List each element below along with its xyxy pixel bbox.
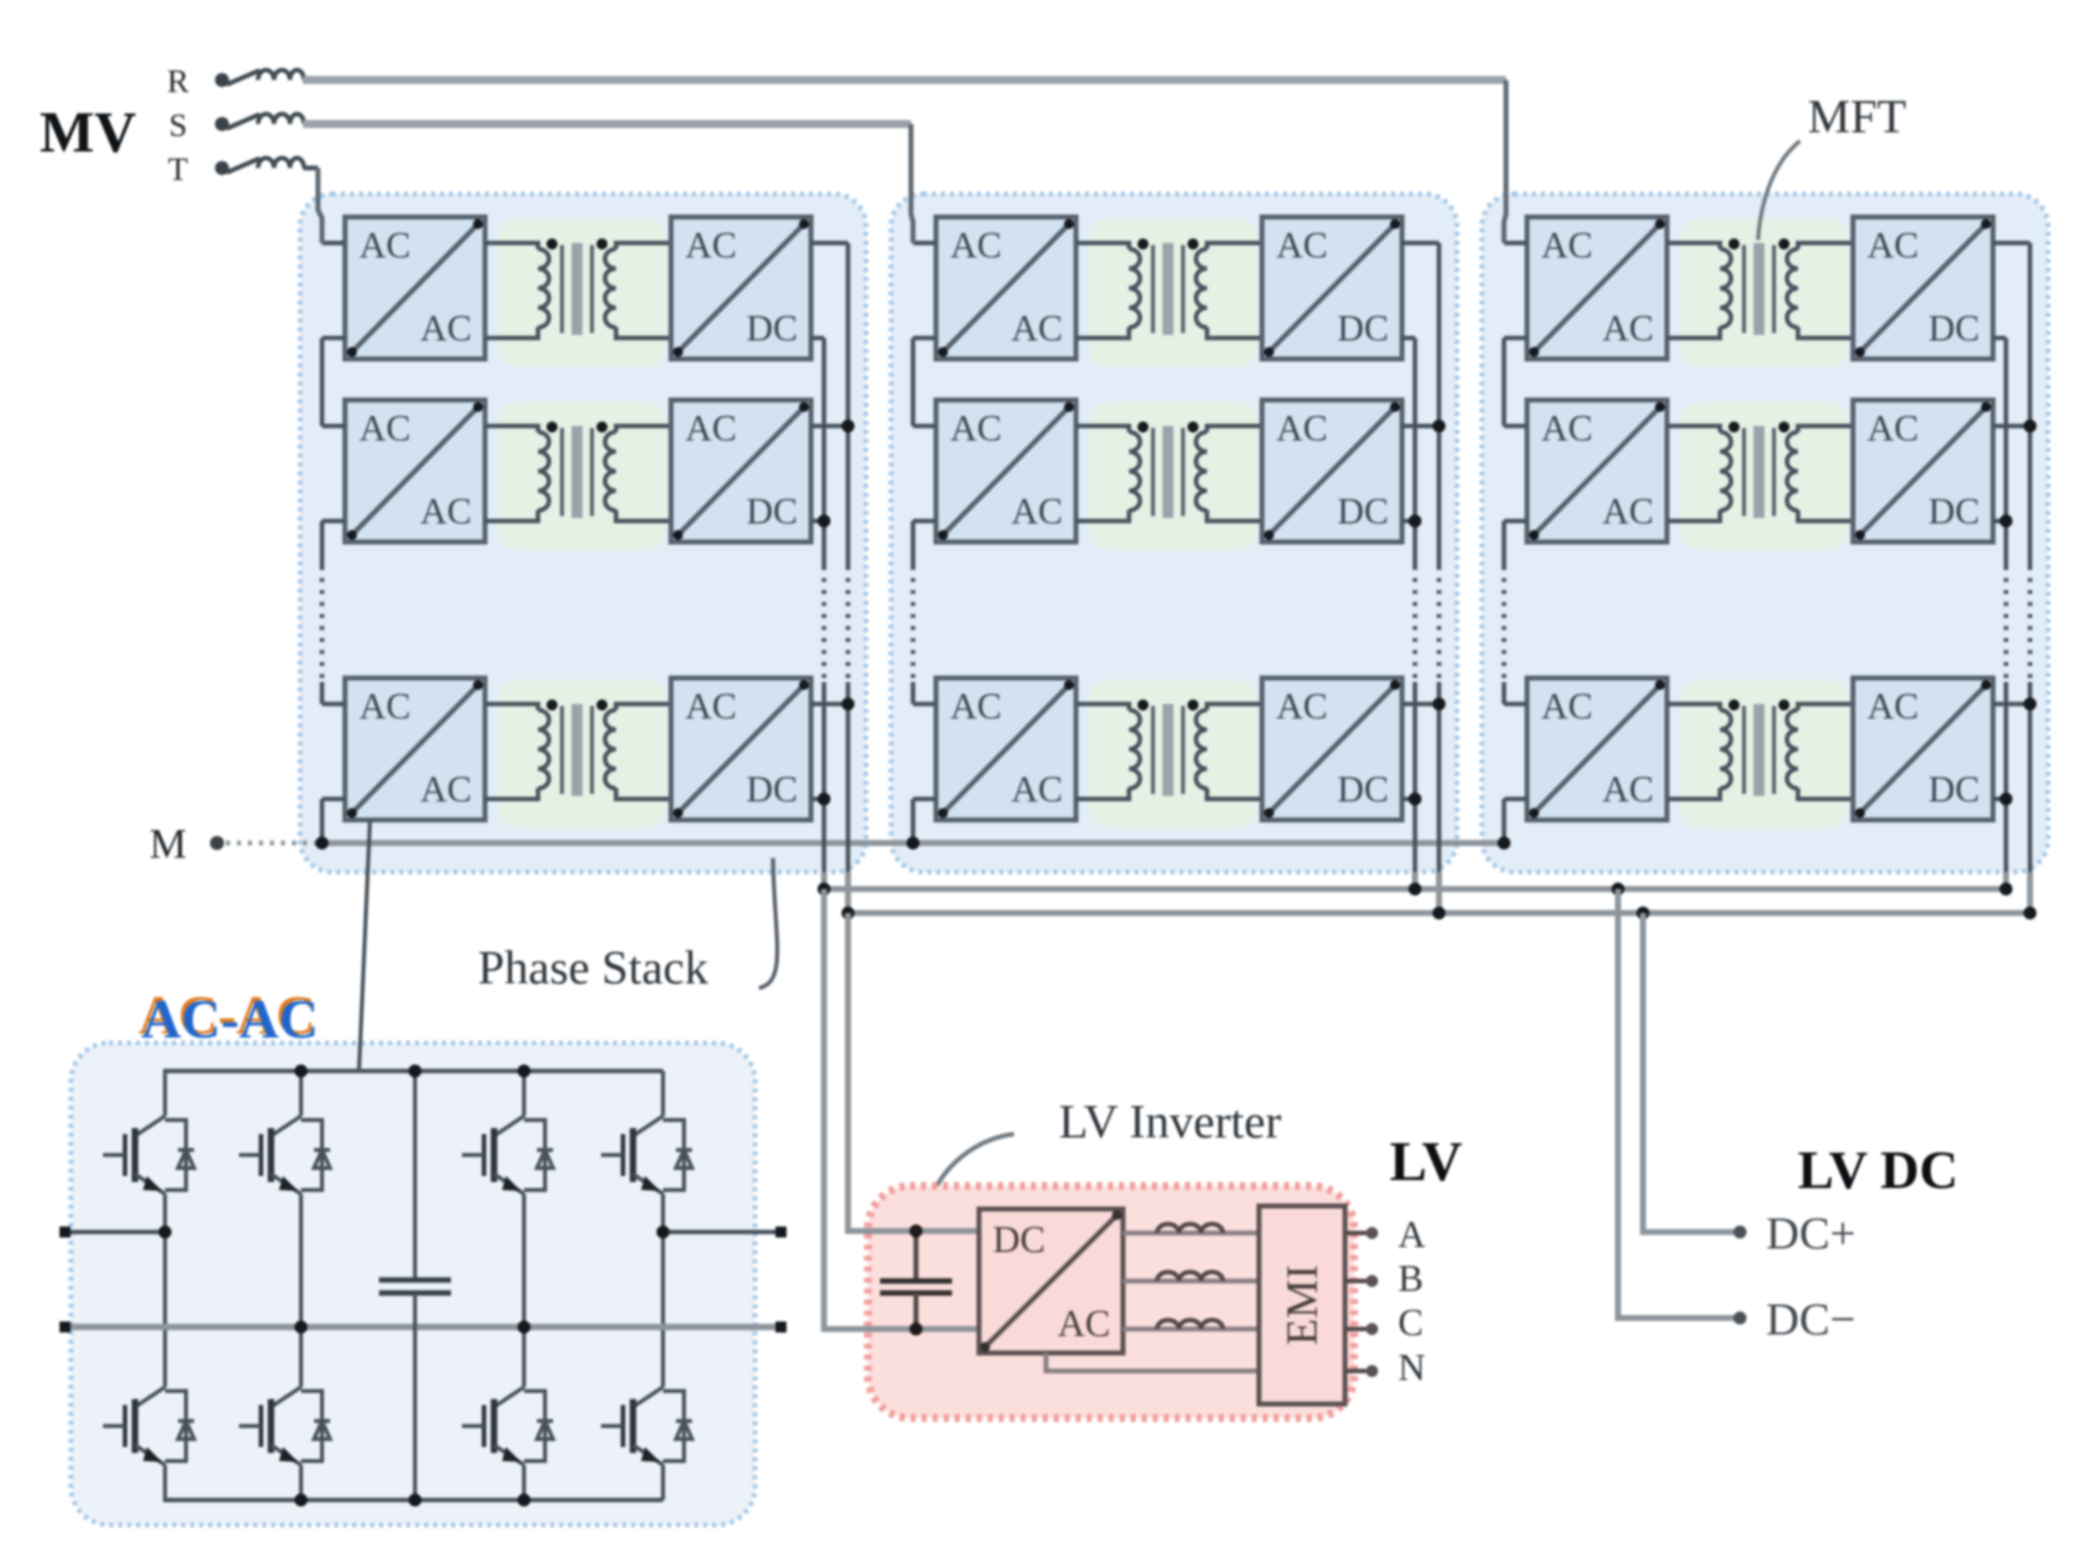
wire output stub bottom stack3 row1 bbox=[1993, 336, 2006, 341]
svg-text:AC-AC: AC-AC bbox=[141, 989, 318, 1050]
inductor LV phase B bbox=[1157, 1272, 1223, 1281]
wire chain stack2 dotted bbox=[911, 566, 916, 682]
node DC rail stack3 upper bbox=[2000, 883, 2013, 896]
svg-text:AC: AC bbox=[420, 309, 471, 350]
breaker switch phase T bbox=[228, 159, 258, 172]
wire AC-AC top rail bbox=[163, 1069, 663, 1074]
wire phase S horizontal bbox=[303, 120, 911, 128]
wire DC bus inner stack3 upper bbox=[2004, 338, 2009, 566]
wire bus outer stack3 drop bbox=[2027, 872, 2033, 914]
wire DC bus inner stack2 lower bbox=[1413, 682, 1418, 872]
wire input stub top stack1 row2 bbox=[322, 424, 345, 429]
node DC rail stack2 lower bbox=[1433, 907, 1446, 920]
wire output stub bottom stack2 row1 bbox=[1402, 336, 1415, 341]
svg-text:AC: AC bbox=[1867, 409, 1918, 450]
node AC-AC bottom rail cap bbox=[409, 1494, 422, 1507]
wire chain stack2 r2-dots bbox=[911, 521, 916, 566]
converter AC/AC stack1 row3 bbox=[345, 678, 485, 820]
capacitor AC-AC DC link bbox=[379, 1071, 451, 1500]
wire bus outer stack1 drop bbox=[845, 872, 851, 1231]
svg-text:AC: AC bbox=[950, 226, 1001, 267]
wire AC-AC leg4 middle bbox=[661, 1206, 665, 1375]
wire DC bus outer stack3 upper bbox=[2028, 243, 2033, 566]
wire AC-AC bottom rail bbox=[163, 1498, 663, 1503]
node stack2 M-rail junction bbox=[907, 837, 920, 850]
wire input stub bottom stack3 row1 bbox=[1504, 336, 1527, 341]
node bus inner stack1 row2 bbox=[818, 515, 831, 528]
converter AC/AC stack2 row3 bbox=[936, 678, 1076, 820]
transformer MFT stack1 row1 bbox=[485, 239, 671, 339]
wire LV phase C bbox=[1123, 1327, 1259, 1332]
label N bbox=[1398, 1347, 1425, 1389]
transistor IGBT Q4T bbox=[601, 1104, 692, 1206]
wire DC bus outer stack1 lower bbox=[846, 682, 851, 872]
label AC-AC bbox=[138, 985, 318, 1050]
svg-text:T: T bbox=[168, 152, 188, 188]
svg-text:AC: AC bbox=[1011, 770, 1062, 811]
svg-text:AC: AC bbox=[1867, 226, 1918, 267]
breaker switch phase S bbox=[228, 115, 258, 128]
label LV Inverter bbox=[1059, 1096, 1282, 1149]
converter AC/DC stack1 row1 bbox=[671, 217, 811, 359]
wire DC rail upper bbox=[824, 886, 2006, 892]
wire input stub top stack2 row1 bbox=[913, 241, 936, 246]
wire AC-AC leg2 lower bbox=[299, 1477, 303, 1500]
wire output stub top stack3 row1 bbox=[1993, 241, 2030, 246]
wire phase S drop bbox=[911, 124, 913, 243]
label B bbox=[1398, 1258, 1423, 1300]
wire LV terminal B bbox=[1345, 1279, 1366, 1284]
svg-text:R: R bbox=[167, 64, 189, 100]
wire output stub bottom stack1 row1 bbox=[811, 336, 824, 341]
wire DC bus outer stack3 dotted bbox=[2028, 566, 2033, 682]
svg-text:AC: AC bbox=[1541, 687, 1592, 728]
wire chain stack3 r3-M bbox=[1502, 799, 1507, 843]
svg-text:M: M bbox=[149, 822, 186, 868]
wire output stub top stack1 row2 bbox=[811, 424, 848, 429]
svg-text:AC: AC bbox=[1541, 409, 1592, 450]
wire phase R horizontal bbox=[303, 76, 1506, 84]
svg-text:DC−: DC− bbox=[1766, 1294, 1856, 1345]
wire AC-AC leg4 upper bbox=[661, 1071, 665, 1104]
svg-text:EMI: EMI bbox=[1278, 1265, 1327, 1346]
wire DC bus outer stack2 dotted bbox=[1437, 566, 1442, 682]
wire LV terminal A bbox=[1345, 1231, 1366, 1236]
wire input stub bottom stack1 row2 bbox=[322, 519, 345, 524]
node DC rail LVDC tap upper bbox=[1612, 883, 1625, 896]
svg-text:AC: AC bbox=[1058, 1303, 1111, 1345]
wire chain stack1 r1-r2 bbox=[320, 338, 325, 426]
wire input stub bottom stack2 row3 bbox=[913, 797, 936, 802]
wire output stub bottom stack1 row3 bbox=[811, 797, 824, 802]
svg-text:AC: AC bbox=[685, 226, 736, 267]
svg-text:DC: DC bbox=[1337, 770, 1388, 811]
svg-text:AC: AC bbox=[420, 770, 471, 811]
wire input stub top stack1 row1 bbox=[322, 241, 345, 246]
transistor IGBT Q2B bbox=[239, 1375, 330, 1477]
svg-text:AC: AC bbox=[1541, 226, 1592, 267]
label MFT bbox=[1808, 91, 1907, 144]
terminal AC-AC low right bbox=[776, 1322, 787, 1333]
terminal M bbox=[210, 836, 224, 850]
svg-text:DC+: DC+ bbox=[1766, 1208, 1856, 1259]
wire DC bus inner stack2 dotted bbox=[1413, 566, 1418, 682]
svg-text:B: B bbox=[1398, 1258, 1423, 1300]
terminal B bbox=[1366, 1275, 1378, 1287]
inductor phase R bbox=[258, 70, 304, 80]
wire DC bus outer stack1 upper bbox=[846, 243, 851, 566]
svg-text:DC: DC bbox=[746, 770, 797, 811]
inductor phase S bbox=[258, 114, 304, 124]
wire AC-AC leg2 upper bbox=[299, 1071, 303, 1104]
node bus outer stack3 row2 bbox=[2024, 420, 2037, 433]
wire DC bus outer stack2 upper bbox=[1437, 243, 1442, 566]
wire M rail dotted segment bbox=[226, 841, 316, 846]
phase stack 2 box bbox=[891, 194, 1457, 872]
converter AC/DC stack2 row3 bbox=[1262, 678, 1402, 820]
converter AC/DC stack2 row1 bbox=[1262, 217, 1402, 359]
wire output stub top stack1 row1 bbox=[811, 241, 848, 246]
phase stack 3 box bbox=[1482, 194, 2048, 872]
wire DC bus inner stack1 dotted bbox=[822, 566, 827, 682]
converter AC/AC stack3 row1 bbox=[1527, 217, 1667, 359]
leader MFT bbox=[1758, 141, 1800, 240]
terminal AC-AC low left bbox=[60, 1322, 71, 1333]
wire input stub top stack2 row3 bbox=[913, 702, 936, 707]
wire output stub top stack2 row3 bbox=[1402, 702, 1439, 707]
label LV bbox=[1390, 1131, 1463, 1193]
wire output stub top stack2 row2 bbox=[1402, 424, 1439, 429]
wire DC bus inner stack1 upper bbox=[822, 338, 827, 566]
svg-text:LV Inverter: LV Inverter bbox=[1059, 1096, 1282, 1149]
svg-text:DC: DC bbox=[1928, 492, 1979, 533]
node bus outer stack2 row3 bbox=[1433, 698, 1446, 711]
wire LV phase B bbox=[1123, 1279, 1259, 1284]
svg-text:Phase Stack: Phase Stack bbox=[478, 942, 709, 995]
wire stack1 cell to AC-AC detail bbox=[359, 820, 370, 1071]
svg-text:AC: AC bbox=[950, 687, 1001, 728]
wire DC bus inner stack3 lower bbox=[2004, 682, 2009, 872]
svg-text:AC: AC bbox=[359, 687, 410, 728]
inductor phase T bbox=[258, 158, 304, 168]
leader Phase Stack bbox=[759, 858, 777, 988]
wire DC bus inner stack2 upper bbox=[1413, 338, 1418, 566]
node LV cap top bbox=[910, 1225, 923, 1238]
wire chain stack3 dotted bbox=[1502, 566, 1507, 682]
terminal S bbox=[215, 117, 229, 131]
node DC rail stack3 lower bbox=[2024, 907, 2037, 920]
wire phase T drop bbox=[318, 168, 322, 243]
wire phase R drop bbox=[1504, 80, 1506, 243]
terminal AC-AC mid left bbox=[60, 1227, 71, 1238]
terminal T bbox=[215, 161, 229, 175]
transistor IGBT Q2T bbox=[239, 1104, 330, 1206]
node bus inner stack2 row2 bbox=[1409, 515, 1422, 528]
transformer background stack3 row1 bbox=[1680, 219, 1848, 367]
wire chain stack1 r3-M bbox=[320, 799, 325, 843]
transformer background stack1 row2 bbox=[498, 402, 666, 550]
label phase S bbox=[169, 108, 187, 144]
transformer MFT stack3 row3 bbox=[1667, 700, 1853, 800]
svg-text:DC: DC bbox=[993, 1219, 1046, 1261]
EMI filter bbox=[1259, 1206, 1345, 1404]
svg-text:MV: MV bbox=[40, 100, 137, 165]
svg-text:AC: AC bbox=[1602, 309, 1653, 350]
wire chain stack3 r1-r2 bbox=[1502, 338, 1507, 426]
terminal A bbox=[1366, 1227, 1378, 1239]
wire AC-AC leg1 middle bbox=[163, 1206, 167, 1375]
transistor IGBT Q1T bbox=[103, 1104, 194, 1206]
wire chain stack2 r1-r2 bbox=[911, 338, 916, 426]
node DC rail LVDC tap lower bbox=[1637, 907, 1650, 920]
converter AC/AC stack3 row3 bbox=[1527, 678, 1667, 820]
converter AC/AC stack1 row1 bbox=[345, 217, 485, 359]
wire DC bus outer stack1 dotted bbox=[846, 566, 851, 682]
node stack1 M-rail junction bbox=[316, 837, 329, 850]
transformer MFT stack2 row1 bbox=[1076, 239, 1262, 339]
transformer background stack1 row3 bbox=[498, 680, 666, 828]
wire input stub top stack3 row3 bbox=[1504, 702, 1527, 707]
transformer MFT stack1 row3 bbox=[485, 700, 671, 800]
transistor IGBT Q3B bbox=[462, 1375, 553, 1477]
node stack3 M-rail junction bbox=[1498, 837, 1511, 850]
node AC-AC bottom rail leg2 bbox=[295, 1494, 308, 1507]
svg-text:DC: DC bbox=[746, 309, 797, 350]
transistor IGBT Q3T bbox=[462, 1104, 553, 1206]
converter AC/DC stack1 row2 bbox=[671, 400, 811, 542]
svg-text:C: C bbox=[1398, 1302, 1423, 1344]
converter AC/AC stack1 row2 bbox=[345, 400, 485, 542]
wire LV feed lower bbox=[824, 889, 979, 1329]
wire chain stack3 dots-r3 bbox=[1502, 682, 1507, 704]
wire AC-AC mid rail right bbox=[663, 1230, 781, 1235]
inductor LV phase A bbox=[1157, 1224, 1223, 1233]
wire AC-AC lower rail bbox=[65, 1324, 781, 1331]
node bus outer stack1 row2 bbox=[842, 420, 855, 433]
svg-text:AC: AC bbox=[1867, 687, 1918, 728]
node DC rail stack1 upper bbox=[818, 883, 831, 896]
transformer MFT stack3 row1 bbox=[1667, 239, 1853, 339]
svg-text:A: A bbox=[1398, 1214, 1426, 1256]
wire bus inner stack3 drop bbox=[2003, 872, 2009, 889]
converter AC/AC stack3 row2 bbox=[1527, 400, 1667, 542]
svg-text:LV: LV bbox=[1390, 1131, 1463, 1193]
wire input stub top stack3 row2 bbox=[1504, 424, 1527, 429]
terminal R bbox=[215, 73, 229, 87]
wire input stub top stack2 row2 bbox=[913, 424, 936, 429]
label DC- bbox=[1766, 1294, 1856, 1345]
AC-AC converter box bbox=[71, 1043, 755, 1525]
transformer background stack3 row3 bbox=[1680, 680, 1848, 828]
wire output stub bottom stack1 row2 bbox=[811, 519, 824, 524]
phase stack 1 box bbox=[300, 194, 866, 872]
wire bus inner stack1 drop bbox=[821, 872, 827, 1329]
svg-text:AC: AC bbox=[1011, 309, 1062, 350]
wire output stub top stack2 row1 bbox=[1402, 241, 1439, 246]
wire chain stack1 dotted bbox=[320, 566, 325, 682]
svg-text:N: N bbox=[1398, 1347, 1425, 1389]
converter AC/DC stack3 row3 bbox=[1853, 678, 1993, 820]
svg-text:AC: AC bbox=[359, 226, 410, 267]
leader LV Inverter bbox=[929, 1134, 1014, 1204]
node AC-AC leg4 mid bbox=[657, 1226, 670, 1239]
wire LV terminal N bbox=[1345, 1369, 1366, 1374]
capacitor LV DC link bbox=[880, 1231, 952, 1329]
wire output stub top stack1 row3 bbox=[811, 702, 848, 707]
node DC rail stack2 upper bbox=[1409, 883, 1422, 896]
wire input stub top stack1 row3 bbox=[322, 702, 345, 707]
wire chain stack2 dots-r3 bbox=[911, 682, 916, 704]
wire input stub bottom stack2 row2 bbox=[913, 519, 936, 524]
wire chain stack1 r2-dots bbox=[320, 521, 325, 566]
node bus outer stack2 row2 bbox=[1433, 420, 1446, 433]
label LV DC bbox=[1798, 1140, 1959, 1200]
svg-text:LV DC: LV DC bbox=[1798, 1140, 1959, 1200]
label M bbox=[149, 822, 186, 868]
converter AC/DC stack3 row1 bbox=[1853, 217, 1993, 359]
inductor LV phase C bbox=[1157, 1320, 1223, 1329]
wire DC bus inner stack1 lower bbox=[822, 682, 827, 872]
converter AC/AC stack2 row2 bbox=[936, 400, 1076, 542]
label phase T bbox=[168, 152, 188, 188]
node bus inner stack2 row3 bbox=[1409, 793, 1422, 806]
breaker switch phase R bbox=[228, 71, 258, 84]
transformer MFT stack2 row3 bbox=[1076, 700, 1262, 800]
svg-text:AC: AC bbox=[420, 492, 471, 533]
wire DC bus outer stack2 lower bbox=[1437, 682, 1442, 872]
node bus inner stack3 row3 bbox=[2000, 793, 2013, 806]
transformer background stack3 row2 bbox=[1680, 402, 1848, 550]
wire AC-AC leg2 middle bbox=[299, 1206, 303, 1375]
converter AC/DC stack3 row2 bbox=[1853, 400, 1993, 542]
wire output stub bottom stack2 row3 bbox=[1402, 797, 1415, 802]
wire DC bus inner stack3 dotted bbox=[2004, 566, 2009, 682]
converter AC/AC stack2 row1 bbox=[936, 217, 1076, 359]
node bus inner stack1 row3 bbox=[818, 793, 831, 806]
wire LV phase A bbox=[1123, 1231, 1259, 1236]
svg-text:AC: AC bbox=[359, 409, 410, 450]
transformer background stack2 row2 bbox=[1089, 402, 1257, 550]
wire AC-AC leg1 lower bbox=[163, 1477, 167, 1500]
LV inverter box bbox=[868, 1186, 1354, 1418]
wire input stub top stack3 row1 bbox=[1504, 241, 1527, 246]
label phase R bbox=[167, 64, 189, 100]
svg-text:S: S bbox=[169, 108, 187, 144]
wire LV DC plus bbox=[1643, 913, 1734, 1232]
wire AC-AC mid rail left bbox=[65, 1230, 165, 1235]
label DC+ bbox=[1766, 1208, 1856, 1259]
node AC-AC leg3 mid bbox=[518, 1321, 531, 1334]
wire DC bus outer stack3 lower bbox=[2028, 682, 2033, 872]
wire input stub bottom stack3 row2 bbox=[1504, 519, 1527, 524]
transformer background stack2 row1 bbox=[1089, 219, 1257, 367]
wire input stub bottom stack1 row1 bbox=[322, 336, 345, 341]
terminal AC-AC mid right bbox=[776, 1227, 787, 1238]
node bus outer stack1 row3 bbox=[842, 698, 855, 711]
wire bus outer stack2 drop bbox=[1436, 872, 1442, 914]
transformer background stack2 row3 bbox=[1089, 680, 1257, 828]
wire AC-AC leg3 middle bbox=[522, 1206, 526, 1375]
wire output stub bottom stack3 row3 bbox=[1993, 797, 2006, 802]
wire input stub bottom stack1 row3 bbox=[322, 797, 345, 802]
svg-text:MFT: MFT bbox=[1808, 91, 1907, 144]
terminal C bbox=[1366, 1323, 1378, 1335]
svg-text:AC: AC bbox=[1276, 687, 1327, 728]
node bus inner stack3 row2 bbox=[2000, 515, 2013, 528]
wire chain stack2 r3-M bbox=[911, 799, 916, 843]
svg-text:AC: AC bbox=[1602, 770, 1653, 811]
svg-text:AC: AC bbox=[685, 687, 736, 728]
wire M rail bbox=[316, 840, 1504, 846]
node AC-AC leg2 mid bbox=[295, 1321, 308, 1334]
node AC-AC top rail leg3 bbox=[518, 1065, 531, 1078]
wire output stub top stack3 row3 bbox=[1993, 702, 2030, 707]
svg-text:AC: AC bbox=[1011, 492, 1062, 533]
node AC-AC top rail leg2 bbox=[295, 1065, 308, 1078]
svg-text:AC: AC bbox=[1276, 409, 1327, 450]
svg-text:AC: AC bbox=[685, 409, 736, 450]
wire AC-AC leg1 upper bbox=[163, 1071, 167, 1104]
svg-text:DC: DC bbox=[746, 492, 797, 533]
wire DC rail lower bbox=[848, 910, 2030, 916]
transistor IGBT Q1B bbox=[103, 1375, 194, 1477]
svg-text:AC: AC bbox=[1276, 226, 1327, 267]
transformer MFT stack3 row2 bbox=[1667, 422, 1853, 522]
node AC-AC bottom rail leg3 bbox=[518, 1494, 531, 1507]
svg-text:DC: DC bbox=[1928, 309, 1979, 350]
wire LV feed upper bbox=[848, 913, 979, 1231]
converter AC/DC stack2 row2 bbox=[1262, 400, 1402, 542]
wire LV neutral bbox=[1046, 1353, 1259, 1371]
node AC-AC top rail cap bbox=[409, 1065, 422, 1078]
transformer MFT stack2 row2 bbox=[1076, 422, 1262, 522]
wire output stub bottom stack2 row2 bbox=[1402, 519, 1415, 524]
transformer background stack1 row1 bbox=[498, 219, 666, 367]
svg-text:DC: DC bbox=[1337, 492, 1388, 533]
wire input stub bottom stack2 row1 bbox=[913, 336, 936, 341]
wire AC-AC leg3 upper bbox=[522, 1071, 526, 1104]
node DC rail stack1 lower bbox=[842, 907, 855, 920]
label Phase Stack bbox=[478, 942, 709, 995]
svg-text:AC: AC bbox=[950, 409, 1001, 450]
terminal N bbox=[1366, 1365, 1378, 1377]
svg-text:DC: DC bbox=[1928, 770, 1979, 811]
wire input stub bottom stack3 row3 bbox=[1504, 797, 1527, 802]
wire AC-AC leg4 lower bbox=[661, 1477, 665, 1500]
terminal DC+ bbox=[1734, 1226, 1747, 1239]
wire chain stack1 dots-r3 bbox=[320, 682, 325, 704]
transformer MFT stack1 row2 bbox=[485, 422, 671, 522]
node AC-AC leg1 mid bbox=[159, 1226, 172, 1239]
wire output stub bottom stack3 row2 bbox=[1993, 519, 2006, 524]
wire output stub top stack3 row2 bbox=[1993, 424, 2030, 429]
label A bbox=[1398, 1214, 1426, 1256]
label MV bus bbox=[40, 100, 137, 165]
svg-text:AC: AC bbox=[1602, 492, 1653, 533]
terminal DC- bbox=[1734, 1312, 1747, 1325]
converter DC/AC LV bbox=[979, 1209, 1123, 1353]
transistor IGBT Q4B bbox=[601, 1375, 692, 1477]
wire chain stack3 r2-dots bbox=[1502, 521, 1507, 566]
wire bus inner stack2 drop bbox=[1412, 872, 1418, 889]
wire AC-AC leg3 lower bbox=[522, 1477, 526, 1500]
converter AC/DC stack1 row3 bbox=[671, 678, 811, 820]
label C bbox=[1398, 1302, 1423, 1344]
node LV cap bottom bbox=[910, 1323, 923, 1336]
wire LV terminal C bbox=[1345, 1327, 1366, 1332]
wire LV DC minus bbox=[1618, 889, 1734, 1318]
svg-text:DC: DC bbox=[1337, 309, 1388, 350]
